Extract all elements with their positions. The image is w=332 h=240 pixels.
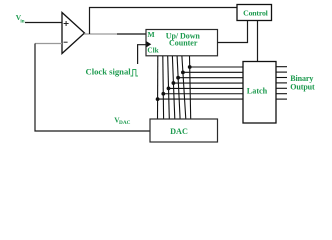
bus tap bit3 horizontal to latch xyxy=(178,77,243,79)
bus wire bit4 vertical xyxy=(172,56,174,119)
junction dot bit3 xyxy=(176,76,180,80)
bus wire bit3 vertical xyxy=(177,56,180,119)
wire left loop down and along bottom to DAC xyxy=(35,44,150,132)
bus wire bit7 vertical xyxy=(157,56,159,119)
bus tap bit6 horizontal to latch xyxy=(163,93,243,95)
wire Vin input to comparator + xyxy=(25,22,62,24)
svg-text:in: in xyxy=(20,20,24,25)
junction dot bit5 xyxy=(167,87,171,91)
junction dot bit1 xyxy=(188,65,192,69)
bus wire bit1 vertical xyxy=(190,56,191,119)
bus tap bit5 horizontal to latch xyxy=(169,87,244,89)
pin Clk edge-trigger marker xyxy=(146,41,151,47)
latch output wire Q2 xyxy=(276,71,287,73)
latch output wire Q4 xyxy=(276,82,287,84)
node Binary Output label xyxy=(290,74,315,92)
svg-text:Latch: Latch xyxy=(247,87,268,96)
bus tap bit2 horizontal to latch xyxy=(183,71,243,73)
op-amp comparator U1 xyxy=(62,13,85,54)
svg-text:Control: Control xyxy=(243,9,268,18)
bus tap bit4 horizontal to latch xyxy=(173,82,243,84)
node Vin label xyxy=(16,13,25,25)
junction dot bit2 xyxy=(181,70,185,74)
junction dot bit4 xyxy=(172,81,176,85)
svg-text:Clock signal: Clock signal xyxy=(86,67,132,77)
wire feedback from output up and right to Control xyxy=(90,8,238,35)
clock pulse symbol xyxy=(130,70,138,77)
DAC U4 box xyxy=(150,119,218,142)
bus wire bit6 vertical xyxy=(162,56,165,119)
wire Control to Latch xyxy=(257,21,259,62)
wire comparator output to counter M input xyxy=(84,33,117,35)
latch output wire Q5 xyxy=(276,87,287,89)
control unit box xyxy=(237,5,272,21)
bus tap bit7 horizontal to latch xyxy=(158,98,243,100)
svg-text:Clk: Clk xyxy=(147,46,158,54)
up/down counter U2 box xyxy=(146,30,218,56)
junction dot bit6 xyxy=(161,92,165,96)
bus tap bit1 horizontal to latch xyxy=(190,66,243,68)
wire clock to Clk pin xyxy=(138,45,146,64)
latch output wire Q3 xyxy=(276,77,287,79)
latch output wire Q6 xyxy=(276,93,287,95)
bus wire bit2 vertical xyxy=(182,56,186,119)
junction dot bit7 xyxy=(156,97,160,101)
bus wire bit5 vertical xyxy=(168,56,170,119)
wire Control to counter xyxy=(218,21,248,43)
latch output wire Q1 xyxy=(276,66,287,68)
svg-text:Counter: Counter xyxy=(169,39,198,48)
counter label xyxy=(166,31,201,47)
svg-text:DAC: DAC xyxy=(170,127,188,136)
svg-text:DAC: DAC xyxy=(119,120,131,126)
latch output wire Q7 xyxy=(276,98,287,100)
svg-text:M: M xyxy=(148,30,155,39)
node VDAC label xyxy=(114,116,130,127)
svg-text:Output: Output xyxy=(290,83,315,92)
latch U3 box xyxy=(243,62,276,124)
wire comparator - input to left loop xyxy=(35,43,62,45)
